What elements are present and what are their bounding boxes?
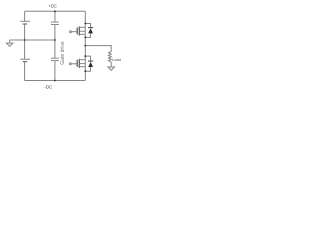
svg-text:+DC: +DC [48,3,56,8]
svg-text:-DC: -DC [44,85,52,90]
svg-text:Gate drive: Gate drive [60,41,66,65]
svg-text:Load: Load [112,58,120,62]
